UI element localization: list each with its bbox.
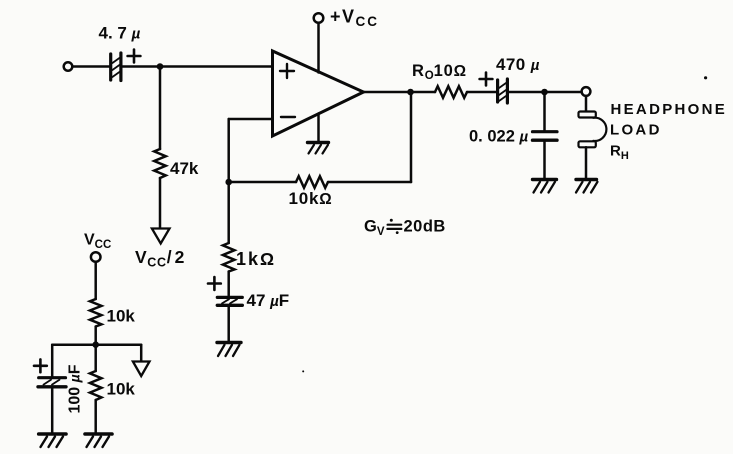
wire to Vcc/2 arrow (divider) <box>140 345 143 362</box>
ground (R7) <box>85 434 112 447</box>
node A (input/47k junction) <box>157 63 164 70</box>
svg-text:47k: 47k <box>170 159 199 178</box>
node Vcc/2 arrow <box>152 229 170 244</box>
capacitor C5 100uF (electrolytic, horizontal plates) <box>34 359 66 386</box>
wire node B to R2 <box>229 181 296 184</box>
wire op-amp output <box>364 91 436 94</box>
wire C1 to op-amp + input <box>123 65 273 68</box>
wire R1 to Vcc/2 arrow <box>159 178 162 229</box>
node C (output) <box>407 89 414 96</box>
svg-text:470 µ: 470 µ <box>496 55 540 74</box>
value label 0.022u <box>469 128 528 146</box>
capacitor C3 0.022u <box>533 132 558 141</box>
ground (C4) <box>217 343 241 357</box>
value label 47uF <box>247 291 290 310</box>
node E (divider junction) <box>92 341 99 348</box>
op-amp U1 <box>273 51 364 136</box>
output terminal J2 <box>582 87 591 96</box>
wire R6 to node E <box>94 327 97 345</box>
label LOAD <box>610 121 662 138</box>
capacitor C2 470u (electrolytic, vertical plates) <box>480 73 508 103</box>
wire node A down to R1 <box>159 67 162 150</box>
wire Vcc to R6 <box>94 262 97 299</box>
svg-text:RO10Ω: RO10Ω <box>412 62 467 82</box>
svg-text:LOAD: LOAD <box>610 121 662 138</box>
wire node E horizontal <box>52 343 141 346</box>
svg-text:VCC/2: VCC/2 <box>135 247 187 270</box>
svg-text:1kΩ: 1kΩ <box>236 249 276 269</box>
capacitor C4 47uF (electrolytic, horizontal plates) <box>208 277 242 305</box>
svg-text:GV: GV <box>364 218 385 238</box>
wire R3 to C2 <box>467 91 496 94</box>
label HEADPHONE <box>611 101 728 118</box>
value label 4.7u <box>99 24 141 43</box>
label Vcc/2 <box>135 247 187 270</box>
svg-text:47 µF: 47 µF <box>247 291 290 310</box>
wire input to C1 <box>73 65 109 68</box>
input terminal J1 <box>64 62 73 71</box>
wire node D down to C3 <box>543 92 546 130</box>
svg-text:100 µF: 100 µF <box>67 364 84 413</box>
ground (op-amp) <box>308 143 329 154</box>
wire C2 to output terminal <box>509 91 582 94</box>
Vcc terminal (divider) <box>91 252 101 262</box>
ground (headphone) <box>576 180 598 193</box>
wire feedback up to output <box>410 92 413 182</box>
svg-text:20dB: 20dB <box>404 218 446 236</box>
label Gv = 20dB <box>364 218 446 238</box>
wire - input down to node B <box>227 119 230 243</box>
resistor R2 10k feedback <box>296 176 328 188</box>
ground (C3) <box>533 180 557 193</box>
value label 1k ohm <box>236 249 276 269</box>
node Vcc/2 arrow (divider) <box>133 362 150 377</box>
wire op-amp to ground <box>317 114 320 142</box>
wire - input <box>229 118 273 121</box>
value label 470u <box>496 55 540 74</box>
node D (C3/headphone junction) <box>541 89 548 96</box>
node B (feedback junction) <box>225 179 232 186</box>
svg-text:10kΩ: 10kΩ <box>289 189 333 208</box>
wire C5 to ground <box>51 389 54 433</box>
capacitor C1 4.7u (electrolytic, vertical plates) <box>111 50 141 81</box>
wire R4 to C4 <box>227 272 230 296</box>
svg-text:10k: 10k <box>107 307 136 326</box>
svg-text:VCC: VCC <box>84 232 111 252</box>
wire C3 to ground <box>543 142 546 179</box>
resistor R1 47k <box>154 149 166 178</box>
label +Vcc <box>330 7 379 30</box>
value label 47k <box>170 159 199 178</box>
symbol approximately-equal <box>387 219 401 234</box>
label RH <box>610 143 629 162</box>
wire +Vcc to op-amp <box>317 23 320 73</box>
resistor R4 1k ohm <box>223 243 235 272</box>
speck below Gv label <box>302 370 304 372</box>
svg-text:4. 7 µ: 4. 7 µ <box>99 24 141 43</box>
wire R2 to output node <box>328 181 411 184</box>
svg-text:+VCC: +VCC <box>330 7 379 30</box>
svg-text:0. 022 µ: 0. 022 µ <box>469 128 528 146</box>
+Vcc terminal <box>314 13 324 23</box>
value label 10k upper <box>107 307 136 326</box>
wire C4 to ground <box>227 307 230 342</box>
wire R7 to ground <box>94 400 97 433</box>
svg-text:RH: RH <box>610 143 629 162</box>
resistor R6 10k <box>90 299 102 327</box>
wire output terminal to headphone <box>585 96 588 112</box>
value label 10k ohm <box>289 189 333 208</box>
wire headphone to ground <box>585 147 588 178</box>
svg-text:HEADPHONE: HEADPHONE <box>611 101 728 118</box>
ground (C5) <box>39 434 66 447</box>
label Ro 10 ohm <box>412 62 467 82</box>
svg-text:10k: 10k <box>107 380 136 399</box>
resistor R3 Ro 10 ohm <box>435 86 467 98</box>
headphone load RH <box>579 112 607 148</box>
wire node E down to C5 <box>51 345 54 377</box>
label Vcc (divider) <box>84 232 111 252</box>
resistor R7 10k lower <box>90 371 102 400</box>
speck top right <box>704 76 707 79</box>
wire node E to R7 <box>94 345 97 371</box>
value label 100uF (rotated) <box>67 364 84 413</box>
value label 10k lower <box>107 380 136 399</box>
